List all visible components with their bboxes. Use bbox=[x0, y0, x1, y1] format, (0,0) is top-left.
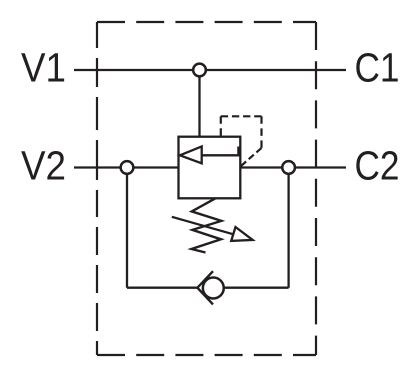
enclosure dashed border right bbox=[315, 22, 317, 355]
svg-text:V1: V1 bbox=[21, 44, 66, 90]
pilot line dashed top run bbox=[221, 115, 262, 117]
node on V2 wire left bbox=[121, 161, 134, 174]
svg-text:V2: V2 bbox=[21, 143, 66, 189]
spring adjustment arrow shaft bbox=[172, 217, 234, 235]
pilot line dashed riser bbox=[220, 116, 222, 136]
enclosure dashed border left bbox=[96, 22, 98, 355]
node on V1 wire bbox=[193, 64, 206, 77]
relief valve body bbox=[179, 137, 241, 199]
svg-text:C2: C2 bbox=[355, 143, 400, 189]
pilot line dashed diagonal bbox=[241, 148, 262, 166]
valve flow arrow shaft bbox=[202, 147, 239, 156]
spring adjustment arrow head bbox=[231, 227, 252, 241]
wire bottom left bbox=[127, 287, 197, 289]
enclosure dashed border bottom bbox=[97, 354, 316, 356]
wire V2 to valve left bbox=[74, 166, 179, 168]
enclosure dashed border top bbox=[97, 21, 316, 23]
wire valve right to C2 bbox=[240, 166, 346, 168]
pilot line dashed right drop bbox=[260, 116, 262, 148]
valve flow arrow head bbox=[180, 146, 202, 163]
node on V2 wire right bbox=[282, 161, 295, 174]
wire right branch down bbox=[287, 168, 289, 288]
svg-text:C1: C1 bbox=[355, 44, 400, 90]
wire node to valve top bbox=[198, 70, 200, 137]
wire bottom right bbox=[224, 287, 289, 289]
wire left branch down bbox=[126, 168, 128, 288]
wire V1 to C1 bbox=[74, 69, 346, 71]
check valve ball bbox=[203, 278, 224, 299]
check valve seat chevron bbox=[197, 271, 213, 304]
adjustable spring bbox=[192, 198, 222, 252]
